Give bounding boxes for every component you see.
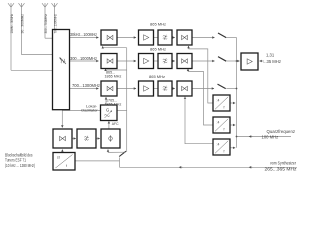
svg-text:700...1300MHz: 700...1300MHz [72, 83, 100, 88]
svg-text:265...365 MHz: 265...365 MHz [265, 167, 297, 172]
svg-text:1865 MHz: 1865 MHz [105, 74, 122, 78]
svg-text::4: :4 [217, 99, 220, 103]
svg-text:Tuners ESF 71: Tuners ESF 71 [5, 157, 27, 162]
svg-text:f: f [224, 150, 225, 154]
svg-text:30kHz...100MHz: 30kHz...100MHz [70, 32, 97, 37]
svg-text:Quarzfrequenz: Quarzfrequenz [267, 129, 296, 134]
svg-text:Oszillator: Oszillator [81, 108, 98, 113]
svg-text:30...300MHz: 30...300MHz [21, 14, 25, 34]
svg-text:...35 MHz: ...35 MHz [263, 59, 281, 64]
svg-text::4: :4 [217, 121, 220, 125]
svg-text:G: G [106, 108, 109, 113]
svg-text:vom Synthesizer: vom Synthesizer [270, 160, 297, 165]
svg-text:1865 MHz: 1865 MHz [105, 102, 122, 106]
svg-text:1,31: 1,31 [266, 53, 275, 58]
svg-text:f: f [224, 128, 225, 132]
svg-text:865 MHz: 865 MHz [149, 74, 165, 79]
svg-text:10kHz...30MHz: 10kHz...30MHz [10, 14, 14, 34]
svg-text:f: f [224, 106, 225, 110]
svg-text:st: st [57, 156, 60, 160]
svg-text:300...700MHz: 300...700MHz [44, 14, 48, 34]
svg-text:865 MHz: 865 MHz [150, 46, 166, 51]
svg-text:AFC: AFC [112, 122, 119, 126]
svg-text:(10 kHz ... 1380 MHz): (10 kHz ... 1380 MHz) [5, 163, 35, 168]
svg-text::4: :4 [217, 143, 220, 147]
svg-text:300...1000MHz: 300...1000MHz [70, 56, 97, 61]
svg-text:f: f [66, 164, 67, 168]
svg-text:100 MHz: 100 MHz [262, 134, 279, 139]
svg-text:865 MHz: 865 MHz [150, 22, 166, 27]
svg-text:700...1300MHz: 700...1300MHz [54, 14, 58, 34]
